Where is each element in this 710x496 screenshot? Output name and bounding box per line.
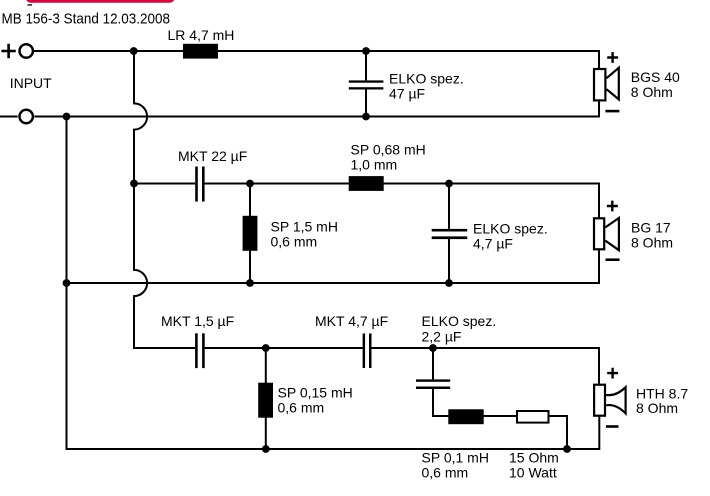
wire: midrange bottom rail from BG 17 minus to left drop [67, 250, 600, 283]
svg-text:SP 0,1 mH: SP 0,1 mH [422, 450, 489, 466]
junction dot minus rail / left drop [63, 113, 71, 121]
input terminal - (circle) [20, 110, 33, 123]
speaker HTH 8.7 (horn) [606, 387, 626, 413]
speaker BG 17 (body) [594, 218, 604, 249]
capacitor ELKO 2,2 µF (plates) [416, 379, 450, 381]
svg-text:8 Ohm: 8 Ohm [631, 84, 673, 100]
plus mark BGS 40 [607, 52, 618, 63]
svg-text:ELKO spez.: ELKO spez. [422, 313, 497, 329]
inductor SP 0,68 mH [349, 176, 384, 191]
svg-text:ELKO spez.: ELKO spez. [389, 70, 464, 86]
svg-text:0,6 mm: 0,6 mm [271, 233, 318, 249]
wire: ELKO 4,7 branch upper [448, 184, 450, 229]
svg-text:15 Ohm: 15 Ohm [509, 450, 559, 466]
junction dot midrange bottom / SP 1,5 [246, 279, 254, 287]
wire: SP 1,5 mH shunt branch [249, 184, 251, 284]
svg-text:1,0 mm: 1,0 mm [351, 156, 398, 172]
minus mark BG 17 [606, 258, 620, 261]
inductor SP 0,15 mH [258, 383, 273, 418]
svg-text:ELKO spez.: ELKO spez. [473, 221, 548, 237]
inductor SP 0,1 mH [448, 409, 483, 424]
svg-text:0,6 mm: 0,6 mm [278, 400, 325, 416]
wire: ELKO 47 branch upper [365, 51, 367, 80]
logo mark (small dark tick under bar) [28, 4, 33, 6]
plus mark HTH 8.7 [607, 368, 618, 379]
wire: top rail (+) from input to BGS 40, corner down at right [34, 51, 599, 68]
svg-text:8 Ohm: 8 Ohm [636, 400, 678, 416]
svg-text:8 Ohm: 8 Ohm [631, 234, 673, 250]
wire: ELKO 4,7 branch lower [448, 239, 450, 283]
speaker BGS 40 (cone) [607, 68, 619, 100]
wire: minus stub at left edge [0, 116, 18, 118]
junction dot top rail / ELKO 47 [362, 47, 370, 55]
svg-text:SP 1,5 mH: SP 1,5 mH [271, 218, 338, 234]
capacitor ELKO 4,7 µF (plates) [432, 229, 468, 232]
svg-text:HTH 8.7: HTH 8.7 [636, 385, 688, 401]
svg-text:BGS 40: BGS 40 [631, 69, 680, 85]
svg-text:4,7 µF: 4,7 µF [473, 236, 513, 252]
capacitor MKT 1,5 µF (plates) [195, 333, 198, 368]
capacitor ELKO 47 µF (plates) [349, 80, 384, 82]
junction dot feed / midrange rail [130, 180, 138, 188]
wire: tweeter rail right segment to HTH plus [371, 348, 599, 384]
inductor LR 4,7 mH [183, 44, 218, 59]
inductor SP 1,5 mH [243, 216, 258, 251]
wire: midrange rail right segment to BG 17 [205, 184, 599, 218]
svg-text:INPUT: INPUT [10, 75, 52, 91]
junction dot top rail / feed [130, 47, 138, 55]
svg-text:47 µF: 47 µF [389, 85, 425, 101]
logo bar (red, partially cropped at top) [26, 0, 175, 3]
minus mark BGS 40 [605, 110, 619, 113]
resistor 15 Ohm 10 Watt [517, 411, 549, 423]
input plus symbol [1, 44, 15, 58]
wire: ELKO 2,2 down-leg, corner, series run to junction, drop to bottom rail [433, 389, 567, 449]
wire: tweeter rail between MKT 1,5 and MKT 4,7 [205, 347, 363, 349]
wire: ELKO 47 branch lower [365, 89, 367, 116]
junction dot tweeter rail / ELKO 2,2 [429, 344, 437, 352]
junction dot minus rail / ELKO 47 [362, 113, 370, 121]
junction dot midrange rail / ELKO 4,7 [445, 180, 453, 188]
svg-text:0,6 mm: 0,6 mm [422, 465, 469, 481]
speaker HTH 8.7 (body) [594, 385, 605, 416]
wire: minus rail from input circle to BGS 40 bottom [34, 101, 599, 116]
speaker BGS 40 (body) [594, 69, 605, 100]
wire: left vertical drop + bottom rail + rise to HTH minus [67, 117, 600, 450]
input terminal + (circle) [20, 44, 33, 57]
svg-text:MB 156-3 Stand 12.03.2008: MB 156-3 Stand 12.03.2008 [2, 12, 171, 28]
junction dot midrange bottom / left drop [63, 279, 71, 287]
svg-text:SP 0,15 mH: SP 0,15 mH [278, 385, 353, 401]
junction dot midrange rail / SP 1,5 [246, 180, 254, 188]
junction dot midrange bottom / ELKO 4,7 [445, 279, 453, 287]
junction dot bottom rail / series branch [563, 445, 571, 453]
junction dot bottom rail / SP 0,15 [262, 445, 270, 453]
wire: ELKO 2,2 branch upper [432, 348, 434, 379]
wire: main feed vertical with two hops, into tweeter rail start [134, 51, 195, 348]
svg-text:BG 17: BG 17 [631, 219, 671, 235]
svg-text:2,2 µF: 2,2 µF [422, 328, 462, 344]
svg-text:10 Watt: 10 Watt [509, 465, 557, 481]
svg-text:MKT 4,7 µF: MKT 4,7 µF [315, 313, 388, 329]
wire: SP 0,15 mH shunt branch [265, 348, 267, 449]
svg-text:LR 4,7 mH: LR 4,7 mH [168, 27, 235, 43]
capacitor MKT 22 µF (plates) [195, 167, 198, 202]
capacitor MKT 4,7 µF (plates) [363, 334, 366, 369]
junction dot tweeter rail / SP 0,15 [262, 344, 270, 352]
plus mark BG 17 [607, 201, 618, 212]
minus mark HTH 8.7 [606, 425, 619, 428]
svg-text:SP 0,68 mH: SP 0,68 mH [351, 141, 426, 157]
wire: midrange rail left segment to MKT 22 cap [134, 183, 195, 185]
speaker BG 17 (cone) [605, 218, 619, 250]
svg-text:MKT 22 µF: MKT 22 µF [178, 148, 247, 164]
svg-text:MKT 1,5 µF: MKT 1,5 µF [161, 313, 234, 329]
